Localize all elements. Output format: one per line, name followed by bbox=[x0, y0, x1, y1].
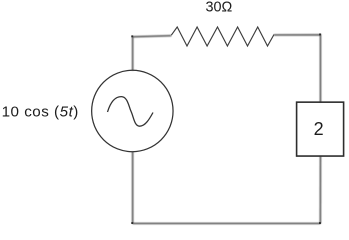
wire: bottom rail bbox=[133, 222, 321, 224]
node: top-right corner junction bbox=[319, 34, 321, 36]
resistor 30ohm zigzag bbox=[171, 27, 274, 46]
node: top-left corner junction bbox=[131, 35, 133, 37]
wire: top-left corner, left rail top segment bbox=[133, 36, 172, 71]
wire: resistor to top-right corner, right rail down to box bbox=[274, 35, 320, 102]
svg-text:30Ω: 30Ω bbox=[206, 0, 233, 15]
source V1 circle (AC source) bbox=[92, 70, 173, 151]
wire: box bottom to bottom-right corner bbox=[319, 156, 321, 223]
wire: bottom-left corner up to source bbox=[132, 152, 134, 224]
svg-text:2: 2 bbox=[314, 119, 324, 139]
node: bottom-right corner junction bbox=[319, 222, 321, 224]
load box impedance "2" bbox=[297, 102, 344, 156]
node: bottom-left corner junction bbox=[131, 222, 133, 224]
sine wave inside source bbox=[108, 97, 154, 127]
svg-text:10 cos (5t): 10 cos (5t) bbox=[2, 104, 79, 121]
